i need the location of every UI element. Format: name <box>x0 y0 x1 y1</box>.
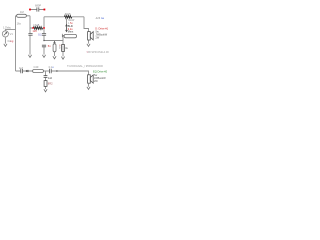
svg-text:2W: 2W <box>96 37 100 40</box>
ground (node A x=30) <box>28 55 31 58</box>
resistor R7 chain box <box>44 81 47 87</box>
wire bottom rail left <box>16 70 33 72</box>
wire pill R1 left lead <box>16 15 17 17</box>
capacitor C5 bottom-left plates <box>21 69 23 73</box>
node dot right (red) <box>44 9 46 11</box>
node dot left (red) <box>29 9 31 11</box>
wire mid rail y=40.5 <box>44 40 63 42</box>
svg-text:V1: V1 <box>10 32 14 36</box>
svg-text:1u5: 1u5 <box>33 30 38 33</box>
svg-text:0.1: 0.1 <box>38 33 42 36</box>
svg-text:TC/ORIGNAL_/ 9556G02/3000: TC/ORIGNAL_/ 9556G02/3000 <box>67 64 103 68</box>
ground (x=63 chain) <box>61 57 64 60</box>
wire R3 top lead <box>54 41 56 44</box>
svg-text:680P: 680P <box>35 3 41 7</box>
svg-text:16o: 16o <box>17 21 22 25</box>
node dot zigzag left (red) <box>32 27 34 29</box>
labels <box>3 3 109 85</box>
resistor R6 pill bottom <box>33 70 44 73</box>
svg-text:0deg: 0deg <box>8 39 14 43</box>
resistor R4 box (x63 chain) <box>62 45 65 52</box>
capacitor C4 plates (node B lower) <box>42 45 46 47</box>
svg-text:1k: 1k <box>65 47 68 50</box>
resistor R5 zigzag top rail <box>64 16 72 19</box>
wire source top to left rail <box>5 30 15 31</box>
wire top rail y=16.8 <box>44 16 84 18</box>
wire zigzag row leads <box>30 27 44 29</box>
wire source bottom lead <box>4 37 6 43</box>
wire R3 bottom lead <box>54 52 56 56</box>
speaker SP2 <box>88 75 94 83</box>
svg-text:-426 na: -426 na <box>95 16 104 20</box>
wire right drop x=84 and jog to speaker1 <box>84 17 89 32</box>
svg-text:C40: C40 <box>34 65 39 69</box>
ground (node B x=44) <box>42 55 45 58</box>
svg-text:30o5: 30o5 <box>65 12 71 16</box>
capacitor C6 bottom plates <box>50 69 52 73</box>
node dot zigzag right (red) <box>43 27 45 29</box>
resistor R3 pill vertical <box>53 44 56 52</box>
capacitor C3 plates (node B upper) <box>42 34 46 36</box>
resistor R1 pill top-left <box>17 14 27 17</box>
port arrow bottom-left <box>26 70 28 72</box>
svg-text:C6u7: C6u7 <box>33 23 40 27</box>
ground (speaker1) <box>87 44 90 47</box>
wire chain x45.5 <box>45 71 47 89</box>
AC source VG1 <box>2 31 8 37</box>
ground (chain x45.5) <box>44 89 47 92</box>
wire speaker2 bottom to ground <box>88 84 90 87</box>
svg-text:4u7: 4u7 <box>19 67 24 70</box>
capacitor C7 chain plates <box>44 76 48 78</box>
resistor R2 zigzag <box>33 27 42 30</box>
svg-text:5: 5 <box>59 47 61 50</box>
svg-text:Mms: Mms <box>68 31 74 34</box>
svg-text:1.5Vac: 1.5Vac <box>3 26 12 30</box>
wire left rail vertical x=15.5 <box>15 16 17 71</box>
capacitor C1 top plates <box>37 7 39 11</box>
terminal bar pill4 left <box>61 34 63 37</box>
ground (source) <box>4 44 7 47</box>
wire top cap C1 leads <box>30 9 44 11</box>
svg-text:SBI SPFCIS2L4.00: SBI SPFCIS2L4.00 <box>87 50 110 54</box>
ground (speaker2) <box>87 87 90 90</box>
junction dot mid rail x44 <box>43 40 44 41</box>
speaker SP1 <box>88 32 94 40</box>
wire bottom rail mid <box>44 70 50 72</box>
wire pill R1 right lead to x30 <box>26 15 30 17</box>
wire speaker1 bottom to ground <box>88 40 90 44</box>
svg-text:0.1u: 0.1u <box>49 66 54 69</box>
wire node-B vertical x=44 <box>43 17 45 55</box>
wire node-A vertical x=30 upper <box>29 16 31 34</box>
svg-text:1u0: 1u0 <box>48 76 53 80</box>
R3 top lead chevron <box>54 42 56 44</box>
wire arrow marker right of C6 <box>57 70 59 72</box>
svg-text:2W: 2W <box>94 80 98 83</box>
svg-text:5n: 5n <box>48 44 51 48</box>
magnet pill (flat) <box>64 34 76 37</box>
wire x63 down chain <box>62 41 64 57</box>
capacitor C2 plates (node A) <box>28 34 32 36</box>
svg-text:8R2: 8R2 <box>48 81 53 85</box>
transducer arrow (double headed) <box>66 25 68 32</box>
wire x63 up to pill4 <box>63 36 64 41</box>
wire node-A vertical x=30 lower <box>29 35 31 54</box>
wire transducer vertical <box>66 19 68 25</box>
wire bottom rail right <box>51 71 88 75</box>
svg-text:1M: 1M <box>20 10 24 14</box>
ground (R3 x=54.5) <box>53 56 56 59</box>
svg-text:EQ Drive #2: EQ Drive #2 <box>93 70 108 74</box>
